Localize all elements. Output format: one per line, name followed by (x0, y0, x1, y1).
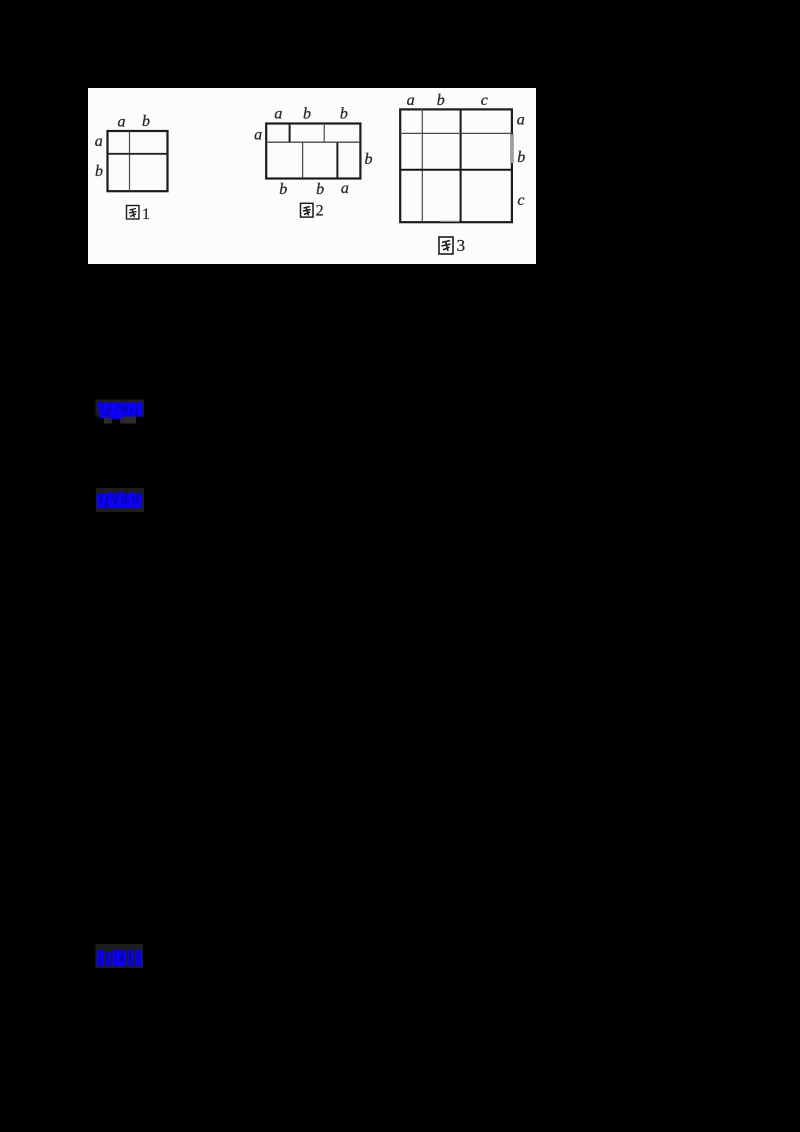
svg-text:3: 3 (457, 236, 466, 255)
svg-text:a: a (118, 113, 126, 130)
svg-text:a: a (254, 127, 262, 144)
svg-text:b: b (279, 181, 287, 198)
svg-text:a: a (407, 92, 415, 109)
svg-text:2: 2 (316, 202, 324, 219)
svg-text:b: b (316, 181, 324, 198)
svg-text:a: a (517, 112, 525, 129)
svg-text:b: b (365, 151, 373, 168)
svg-text:b: b (142, 113, 150, 130)
svg-text:a: a (274, 105, 282, 122)
svg-text:b: b (437, 92, 445, 109)
svg-text:a: a (341, 180, 349, 197)
svg-text:1: 1 (142, 206, 150, 223)
svg-text:c: c (517, 192, 524, 209)
svg-text:b: b (95, 163, 103, 180)
svg-text:c: c (481, 92, 488, 109)
svg-text:a: a (95, 133, 103, 150)
svg-text:b: b (340, 105, 348, 122)
svg-text:b: b (517, 149, 525, 166)
svg-text:b: b (303, 105, 311, 122)
